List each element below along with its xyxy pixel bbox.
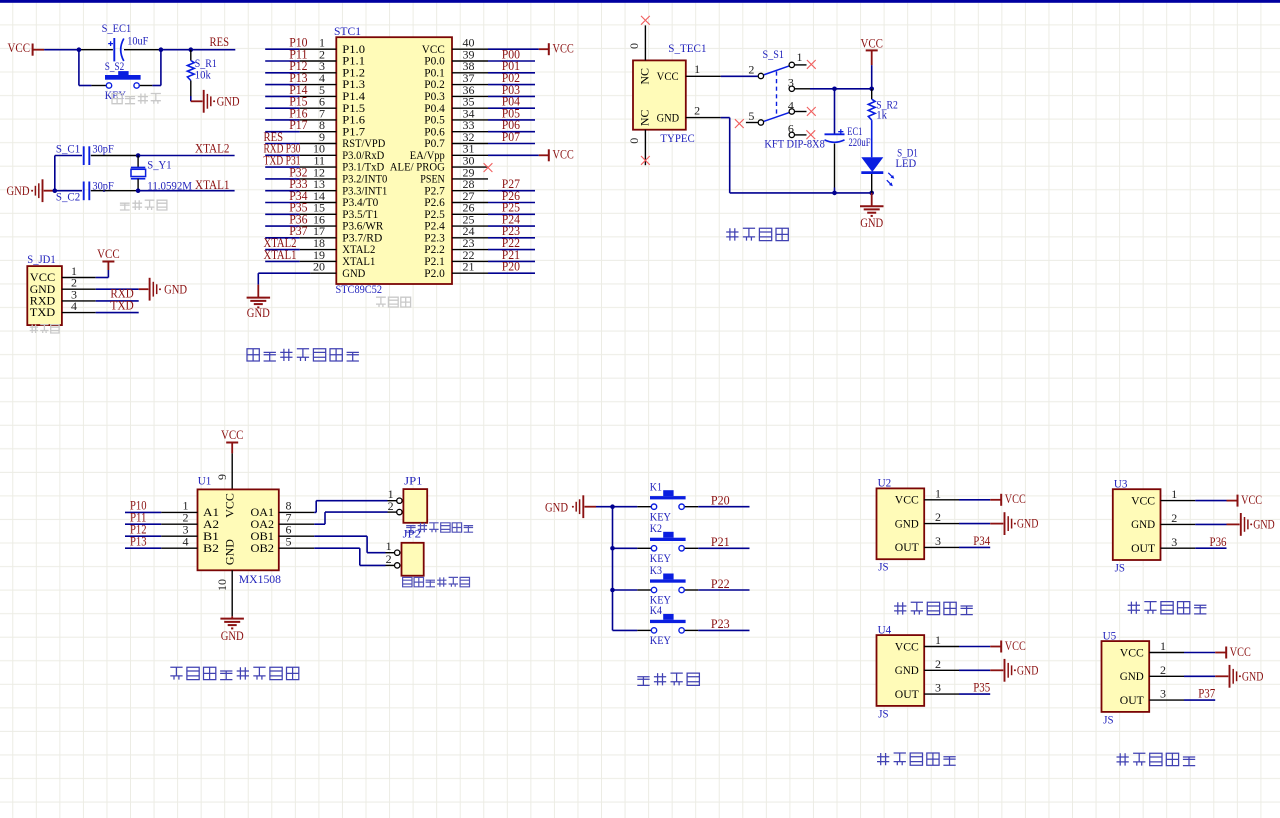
svg-text:6: 6 bbox=[788, 122, 794, 136]
svg-text:OUT: OUT bbox=[895, 687, 920, 701]
svg-text:VCC: VCC bbox=[657, 69, 679, 83]
svg-text:GND: GND bbox=[164, 283, 187, 297]
svg-text:LED: LED bbox=[896, 156, 917, 170]
svg-text:TXD: TXD bbox=[30, 305, 56, 319]
svg-text:P22: P22 bbox=[711, 577, 730, 591]
svg-text:P37: P37 bbox=[1198, 687, 1215, 701]
svg-text:STC1: STC1 bbox=[334, 24, 361, 38]
svg-text:2: 2 bbox=[748, 63, 754, 77]
svg-text:VCC: VCC bbox=[1241, 493, 1262, 507]
svg-text:1k: 1k bbox=[876, 108, 887, 122]
svg-text:1: 1 bbox=[935, 486, 941, 500]
svg-text:GND: GND bbox=[860, 216, 883, 230]
svg-text:TYPEC: TYPEC bbox=[660, 131, 694, 145]
svg-text:S_S1: S_S1 bbox=[763, 47, 784, 61]
svg-text:GND: GND bbox=[1017, 517, 1039, 531]
svg-text:S_C1: S_C1 bbox=[56, 142, 80, 156]
svg-text:GND: GND bbox=[1253, 517, 1275, 531]
svg-text:VCC: VCC bbox=[1005, 492, 1026, 506]
svg-text:2: 2 bbox=[935, 510, 941, 524]
svg-text:JS: JS bbox=[1115, 561, 1125, 575]
svg-text:10uF: 10uF bbox=[127, 34, 148, 48]
svg-text:P17: P17 bbox=[289, 118, 307, 132]
svg-text:10k: 10k bbox=[195, 68, 211, 82]
svg-text:S_TEC1: S_TEC1 bbox=[668, 41, 706, 55]
svg-text:K2: K2 bbox=[650, 521, 662, 535]
svg-text:GND: GND bbox=[895, 663, 919, 677]
svg-text:S_C2: S_C2 bbox=[56, 189, 80, 203]
svg-text:GND: GND bbox=[222, 539, 236, 565]
svg-text:VCC: VCC bbox=[895, 493, 919, 507]
svg-text:GND: GND bbox=[7, 184, 30, 198]
svg-text:GND: GND bbox=[1017, 663, 1039, 677]
svg-text:GND: GND bbox=[1242, 669, 1264, 683]
svg-text:30pF: 30pF bbox=[92, 141, 114, 155]
svg-text:3: 3 bbox=[788, 75, 794, 89]
svg-text:OUT: OUT bbox=[1120, 693, 1145, 707]
svg-text:S_JD1: S_JD1 bbox=[27, 252, 55, 266]
svg-text:VCC: VCC bbox=[1131, 493, 1155, 507]
svg-text:1: 1 bbox=[935, 633, 941, 647]
svg-text:2: 2 bbox=[388, 499, 394, 513]
svg-text:220uF: 220uF bbox=[849, 135, 871, 149]
svg-text:4: 4 bbox=[71, 299, 77, 313]
svg-text:2: 2 bbox=[386, 552, 392, 566]
svg-text:3: 3 bbox=[1171, 535, 1177, 549]
svg-text:S_S2: S_S2 bbox=[105, 59, 125, 73]
svg-text:GND: GND bbox=[217, 95, 240, 109]
svg-text:20: 20 bbox=[313, 260, 325, 274]
svg-text:XTAL2: XTAL2 bbox=[195, 142, 230, 156]
svg-text:5: 5 bbox=[286, 534, 292, 548]
svg-text:U3: U3 bbox=[1114, 476, 1128, 490]
svg-text:K4: K4 bbox=[650, 603, 662, 617]
svg-text:1: 1 bbox=[1160, 639, 1166, 653]
svg-text:1: 1 bbox=[694, 62, 700, 76]
svg-text:JS: JS bbox=[878, 560, 888, 574]
svg-text:P2.0: P2.0 bbox=[424, 266, 445, 280]
svg-text:KEY: KEY bbox=[650, 633, 671, 647]
svg-text:JP2: JP2 bbox=[403, 527, 421, 541]
svg-text:RES: RES bbox=[210, 35, 230, 49]
svg-text:GND: GND bbox=[342, 266, 365, 280]
svg-text:P23: P23 bbox=[711, 617, 730, 631]
svg-text:0: 0 bbox=[627, 138, 641, 144]
svg-text:GND: GND bbox=[657, 111, 680, 125]
svg-text:GND: GND bbox=[895, 516, 919, 530]
svg-text:XTAL1: XTAL1 bbox=[195, 178, 230, 192]
svg-text:1: 1 bbox=[1171, 487, 1177, 501]
svg-text:OUT: OUT bbox=[1131, 541, 1156, 555]
svg-text:VCC: VCC bbox=[97, 247, 120, 261]
svg-text:VCC: VCC bbox=[895, 639, 919, 653]
svg-text:P36: P36 bbox=[1210, 535, 1227, 549]
svg-text:P35: P35 bbox=[973, 681, 990, 695]
svg-text:OB2: OB2 bbox=[251, 541, 275, 555]
svg-text:JP1: JP1 bbox=[404, 473, 422, 487]
svg-text:VCC: VCC bbox=[860, 36, 883, 50]
svg-text:K1: K1 bbox=[650, 480, 662, 494]
svg-text:VCC: VCC bbox=[8, 41, 31, 55]
svg-text:0: 0 bbox=[627, 43, 641, 49]
svg-text:GND: GND bbox=[1131, 517, 1155, 531]
svg-text:B2: B2 bbox=[203, 541, 219, 555]
svg-text:9: 9 bbox=[215, 474, 229, 480]
svg-text:4: 4 bbox=[183, 534, 189, 548]
svg-text:2: 2 bbox=[694, 104, 700, 118]
svg-text:1: 1 bbox=[797, 50, 803, 64]
svg-text:P20: P20 bbox=[711, 494, 730, 508]
svg-text:VCC: VCC bbox=[553, 42, 574, 56]
svg-text:3: 3 bbox=[935, 681, 941, 695]
svg-text:3: 3 bbox=[1160, 687, 1166, 701]
svg-text:4: 4 bbox=[788, 98, 794, 112]
svg-text:GND: GND bbox=[221, 629, 244, 643]
svg-text:VCC: VCC bbox=[1005, 639, 1026, 653]
svg-text:JS: JS bbox=[878, 706, 888, 720]
svg-text:P34: P34 bbox=[973, 534, 991, 548]
svg-text:3: 3 bbox=[935, 534, 941, 548]
svg-text:P07: P07 bbox=[502, 130, 520, 144]
svg-text:MX1508: MX1508 bbox=[239, 572, 281, 586]
svg-text:GND: GND bbox=[247, 306, 270, 320]
svg-text:VCC: VCC bbox=[553, 148, 574, 162]
svg-text:21: 21 bbox=[463, 260, 475, 274]
svg-text:KEY: KEY bbox=[105, 88, 126, 102]
svg-text:TXD: TXD bbox=[110, 298, 133, 312]
svg-text:XTAL1: XTAL1 bbox=[264, 248, 297, 262]
svg-text:S_Y1: S_Y1 bbox=[147, 158, 171, 172]
svg-text:KFT DIP-8X8: KFT DIP-8X8 bbox=[764, 136, 824, 150]
svg-text:10: 10 bbox=[215, 579, 229, 591]
svg-text:2: 2 bbox=[1171, 511, 1177, 525]
svg-text:GND: GND bbox=[545, 501, 568, 515]
svg-text:NC: NC bbox=[638, 109, 652, 126]
svg-text:2: 2 bbox=[935, 657, 941, 671]
svg-text:JS: JS bbox=[1103, 712, 1113, 726]
svg-text:VCC: VCC bbox=[222, 493, 236, 518]
svg-text:P20: P20 bbox=[502, 260, 520, 274]
svg-text:2: 2 bbox=[1160, 663, 1166, 677]
svg-text:VCC: VCC bbox=[221, 428, 244, 442]
svg-text:NC: NC bbox=[638, 68, 652, 85]
svg-text:30pF: 30pF bbox=[92, 178, 114, 192]
svg-text:K3: K3 bbox=[650, 563, 662, 577]
svg-text:STC89C52: STC89C52 bbox=[336, 282, 383, 296]
svg-text:VCC: VCC bbox=[1120, 645, 1144, 659]
svg-text:P21: P21 bbox=[711, 535, 730, 549]
svg-text:U1: U1 bbox=[198, 474, 212, 488]
svg-text:P13: P13 bbox=[130, 534, 147, 548]
svg-text:5: 5 bbox=[748, 109, 754, 123]
svg-text:OUT: OUT bbox=[895, 540, 920, 554]
svg-text:GND: GND bbox=[1120, 669, 1144, 683]
svg-text:VCC: VCC bbox=[1230, 645, 1251, 659]
